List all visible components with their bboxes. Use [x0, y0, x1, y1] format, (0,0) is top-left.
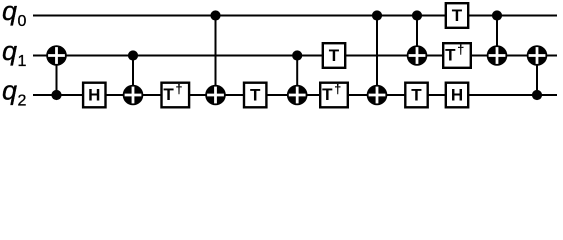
qubit label q0: [2, 0, 27, 30]
cnot CX5: control q0, target q2: [367, 10, 388, 105]
svg-text:H: H: [88, 86, 100, 105]
cnot CX8: control q2, target q1: [527, 45, 548, 100]
svg-text:T: T: [445, 46, 456, 65]
gate T1 on q2: [244, 83, 266, 108]
svg-text:T: T: [322, 85, 333, 104]
gate Tdg1 on q2: [162, 82, 190, 108]
svg-text:†: †: [334, 82, 341, 97]
wire q1: [33, 55, 557, 57]
svg-text:H: H: [451, 86, 463, 105]
qubit label q1: [2, 36, 27, 70]
svg-text:†: †: [175, 82, 182, 97]
cnot CX3: control q0, target q2: [205, 10, 226, 105]
qubit label q2: [2, 76, 27, 110]
gate T3 on q2: [405, 83, 427, 108]
cnot CX4: control q1, target q2: [287, 50, 308, 105]
wire q2: [33, 94, 557, 96]
svg-text:T: T: [452, 6, 463, 25]
cnot CX2: control q1, target q2: [123, 50, 144, 105]
svg-text:q: q: [2, 36, 17, 66]
svg-text:T: T: [250, 86, 261, 105]
svg-text:2: 2: [18, 93, 27, 110]
svg-text:0: 0: [18, 13, 27, 30]
gate H2 on q2: [446, 83, 468, 108]
svg-text:†: †: [457, 42, 464, 57]
svg-text:1: 1: [18, 53, 27, 70]
gate Tdg3 on q1: [443, 42, 471, 68]
svg-text:T: T: [329, 46, 340, 65]
gate H1 on q2: [83, 83, 105, 108]
svg-text:T: T: [411, 86, 422, 105]
svg-text:q: q: [2, 0, 17, 26]
svg-text:T: T: [163, 85, 174, 104]
gate Tdg2 on q2: [320, 82, 348, 108]
cnot CX7: control q0, target q1: [487, 10, 508, 65]
wire q0: [33, 15, 557, 17]
gate T4 on q0: [446, 3, 468, 28]
quantum circuit: controlled-swap decomposition, 3 qubits: [0, 0, 563, 112]
cnot CX1: control q2, target q1: [46, 45, 67, 100]
svg-text:q: q: [2, 76, 17, 106]
gate T2 on q1: [323, 43, 345, 68]
cnot CX6: control q0, target q1: [407, 10, 428, 65]
